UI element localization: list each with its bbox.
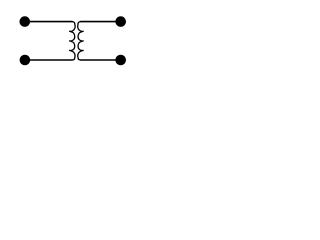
wire bottom-right [81, 59, 121, 61]
wire top-right [81, 21, 121, 23]
terminal dot P2+ [115, 16, 126, 27]
inductor L1 primary winding [70, 22, 75, 60]
transformer T1 [0, 0, 151, 79]
inductor L2 secondary winding [78, 22, 83, 60]
terminal dot P2- [115, 55, 126, 66]
wire top-left [25, 21, 72, 23]
terminal dot P1+ [20, 16, 31, 27]
terminal dot P1- [20, 55, 31, 66]
wire bottom-left [25, 59, 72, 61]
